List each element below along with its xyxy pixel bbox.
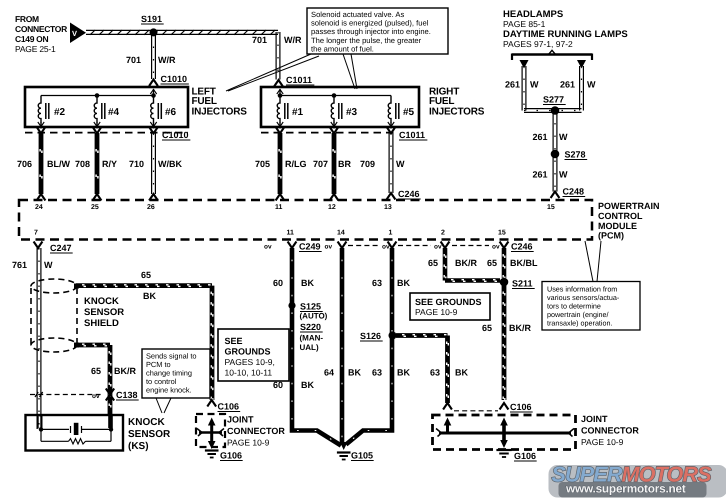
svg-text:C1010: C1010 xyxy=(161,74,188,84)
PCM bottom pin numbers xyxy=(34,230,506,237)
arrow to headlamps left xyxy=(520,60,529,69)
wire 65 BK/R from pin 2 xyxy=(444,248,500,281)
label RIGHT FUEL INJECTORS xyxy=(429,87,485,118)
note: see grounds pages 10-9 10-10 10-11 xyxy=(218,329,289,381)
wire 261 W from S277 to C248 xyxy=(553,111,557,192)
svg-text:BL/W: BL/W xyxy=(47,159,70,169)
labels S125 AUTO S220 MANUAL xyxy=(300,302,328,353)
PCM top forks for injector wires xyxy=(37,194,339,201)
svg-text:BK: BK xyxy=(397,278,410,288)
callout: uses information note xyxy=(542,282,640,331)
wire 65 BK/R from S211 to C106 xyxy=(503,286,505,401)
label 261 W mid xyxy=(533,132,569,142)
label POWERTRAIN CONTROL MODULE (PCM) xyxy=(598,201,660,241)
svg-text:705: 705 xyxy=(255,159,270,169)
svg-text:PAGE 85-1: PAGE 85-1 xyxy=(503,19,546,29)
ground G106 right arrow xyxy=(500,440,508,448)
ground G105 xyxy=(337,451,374,461)
svg-text:64: 64 xyxy=(324,368,334,378)
svg-text:701: 701 xyxy=(126,55,141,65)
svg-text:W: W xyxy=(44,260,53,270)
injector #3 xyxy=(331,96,358,129)
svg-text:C106: C106 xyxy=(510,402,532,412)
svg-text:63: 63 xyxy=(372,278,382,288)
wire 761 into knock sensor xyxy=(38,415,42,429)
svg-text:G106: G106 xyxy=(514,451,536,461)
svg-text:S191: S191 xyxy=(141,14,162,24)
right box internal bus wire xyxy=(280,95,391,97)
svg-text:CONNECTOR: CONNECTOR xyxy=(15,24,67,34)
svg-text:BK/R: BK/R xyxy=(455,258,477,268)
ground G106 right xyxy=(496,450,536,461)
svg-text:2: 2 xyxy=(441,230,445,237)
headlamps bracket xyxy=(512,50,592,60)
svg-text:UAL): UAL) xyxy=(300,343,319,352)
svg-text:PAGE 10-9: PAGE 10-9 xyxy=(581,437,624,447)
svg-text:(PCM): (PCM) xyxy=(598,231,624,241)
note: headlamps / daytime running lamps xyxy=(503,9,628,49)
svg-text:KNOCK: KNOCK xyxy=(128,417,165,428)
connector C1011 bottom label xyxy=(399,130,427,140)
svg-text:261: 261 xyxy=(533,170,548,180)
knock sensor internal piezo element xyxy=(39,423,113,444)
svg-text:13: 13 xyxy=(384,204,392,211)
connector C247 fork at pin 7 xyxy=(34,242,73,254)
wire 761 W from C247 to knock sensor xyxy=(37,248,41,429)
svg-text:W/R: W/R xyxy=(284,35,302,45)
svg-text:65: 65 xyxy=(141,270,151,280)
junction square shield bottom xyxy=(74,343,79,348)
svg-text:SEE GROUNDS: SEE GROUNDS xyxy=(415,297,482,307)
arrow to headlamps right xyxy=(577,60,586,69)
injector #4 xyxy=(94,96,120,129)
svg-text:ov: ov xyxy=(434,244,442,251)
wire 261 W bottom connecting xyxy=(524,109,582,113)
svg-text:W/R: W/R xyxy=(158,55,176,65)
callout 3 pointer to PCM xyxy=(585,241,601,282)
callout pointer to left injector box xyxy=(226,54,319,91)
svg-text:SENSOR: SENSOR xyxy=(84,307,124,318)
svg-text:25: 25 xyxy=(91,204,99,211)
svg-text:C1011: C1011 xyxy=(286,75,312,85)
PCM top pin numbers xyxy=(35,204,555,211)
wire 701 W/R vertical right branch to C1011 xyxy=(276,32,280,80)
svg-text:Solenoid actuated valve. As: Solenoid actuated valve. As xyxy=(311,10,405,19)
svg-text:15: 15 xyxy=(498,230,506,237)
svg-text:engine knock.: engine knock. xyxy=(146,386,192,395)
note: see grounds page 10-9 xyxy=(410,293,490,320)
svg-text:7: 7 xyxy=(34,230,38,237)
svg-text:CONTROL: CONTROL xyxy=(598,211,643,221)
svg-text:(MAN-: (MAN- xyxy=(300,334,324,343)
left fuel injectors box xyxy=(25,87,188,127)
right box bottom connector C1011 dashed line xyxy=(261,132,395,134)
svg-text:FROM: FROM xyxy=(15,14,39,24)
junction dot at injector 4 xyxy=(95,93,100,98)
svg-text:BK: BK xyxy=(143,291,156,301)
ground G106 left xyxy=(205,451,243,461)
hatch on 761 wire at C138 xyxy=(35,392,43,397)
label KNOCK SENSOR SHIELD xyxy=(84,296,124,329)
splice S278 xyxy=(551,150,587,160)
svg-text:SEE: SEE xyxy=(225,336,243,346)
svg-text:710: 710 xyxy=(129,159,144,169)
svg-text:1: 1 xyxy=(389,230,393,237)
right box entry arrow from C1011 xyxy=(277,89,283,96)
svg-text:65: 65 xyxy=(487,258,497,268)
svg-text:14: 14 xyxy=(337,230,345,237)
svg-text:V: V xyxy=(72,29,77,38)
svg-text:BK: BK xyxy=(455,368,468,378)
label JOINT CONNECTOR PAGE 10-9 right xyxy=(581,414,639,447)
svg-text:PAGE 25-1: PAGE 25-1 xyxy=(15,44,56,54)
svg-text:transaxle) operation.: transaxle) operation. xyxy=(547,319,613,328)
ground G105 arrow xyxy=(340,442,348,450)
svg-text:C106: C106 xyxy=(218,402,240,412)
svg-text:R/LG: R/LG xyxy=(285,159,307,169)
svg-text:63: 63 xyxy=(430,368,440,378)
svg-text:10-10, 10-11: 10-10, 10-11 xyxy=(225,368,273,378)
right fuel injectors box xyxy=(261,87,419,127)
wire 701 W/R hatched horizontal from arrow to elbow xyxy=(86,30,278,35)
junction dot at right entry xyxy=(278,93,283,98)
wire 701 W/R vertical left branch from S191 to C1010 xyxy=(152,34,156,79)
connector C1010 top fork xyxy=(149,74,189,86)
svg-text:G105: G105 xyxy=(351,451,373,461)
svg-text:#2: #2 xyxy=(54,107,66,118)
callout: sends signal to PCM note xyxy=(142,349,210,398)
svg-text:#3: #3 xyxy=(346,107,358,118)
svg-text:SHIELD: SHIELD xyxy=(84,318,119,329)
callout pointer to right injector box xyxy=(343,54,357,89)
svg-text:BK/R: BK/R xyxy=(509,323,531,333)
svg-text:W: W xyxy=(530,80,539,90)
svg-text:65: 65 xyxy=(428,258,438,268)
svg-text:PAGES 97-1, 97-2: PAGES 97-1, 97-2 xyxy=(503,39,573,49)
connector C246 at PCM pin 13 xyxy=(387,189,421,200)
svg-text:(AUTO): (AUTO) xyxy=(300,312,328,321)
knock sensor box xyxy=(26,415,124,451)
wire 63 BK from S126 to joint connector xyxy=(396,335,448,403)
label 701 W/R right branch xyxy=(252,35,302,45)
wire 65 BK vertical to C106 xyxy=(211,286,213,400)
label KNOCK SENSOR (KS) xyxy=(128,417,171,452)
label 701 W/R left branch xyxy=(126,55,176,65)
svg-text:C1011: C1011 xyxy=(399,130,425,140)
label 65 BK/BL pin15 xyxy=(487,258,538,268)
svg-text:passes through injector into: passes through injector into engine. xyxy=(311,27,431,36)
wire 65 BK/BL from pin 15 xyxy=(503,248,505,278)
svg-text:ov: ov xyxy=(325,244,333,251)
svg-text:W: W xyxy=(587,80,596,90)
splice S191 xyxy=(141,14,164,36)
svg-text:CONNECTOR: CONNECTOR xyxy=(227,426,285,436)
svg-text:701: 701 xyxy=(252,35,267,45)
wire 64 BK from pin 14 xyxy=(340,248,345,444)
labels for injector wires xyxy=(17,159,405,169)
label 64 BK xyxy=(324,368,361,378)
svg-text:11: 11 xyxy=(275,204,283,211)
svg-text:C249: C249 xyxy=(299,242,321,252)
injector #1 xyxy=(277,96,304,129)
label 65 BK/R lower xyxy=(482,323,531,333)
svg-text:KNOCK: KNOCK xyxy=(84,296,119,307)
injector #6 xyxy=(150,96,176,129)
svg-text:BK/R: BK/R xyxy=(114,366,136,376)
label 761 W xyxy=(12,260,53,270)
svg-text:261: 261 xyxy=(560,80,575,90)
left box exit forks xyxy=(37,127,158,133)
connector C1011 top fork xyxy=(274,75,314,87)
svg-text:C1010: C1010 xyxy=(162,130,189,140)
splice S211 xyxy=(500,278,535,289)
svg-text:BR: BR xyxy=(338,159,351,169)
svg-text:C138: C138 xyxy=(116,390,138,400)
svg-text:FUEL: FUEL xyxy=(192,96,217,107)
svg-text:PAGE 10-9: PAGE 10-9 xyxy=(227,438,270,448)
junction dot at left entry xyxy=(151,93,156,98)
svg-text:63: 63 xyxy=(372,368,382,378)
splice S126 xyxy=(360,331,397,341)
label 60 BK lower xyxy=(273,380,314,390)
knock sensor shield dashed cylinder xyxy=(31,279,77,352)
note: from connector C149 text xyxy=(15,14,67,54)
splice S277 xyxy=(543,95,566,115)
svg-text:solenoid is energized (pulsed): solenoid is energized (pulsed), fuel xyxy=(311,19,429,28)
svg-text:BK/BL: BK/BL xyxy=(510,258,538,268)
wire 706 BL/W xyxy=(40,133,42,194)
svg-text:#1: #1 xyxy=(292,107,304,118)
svg-text:SENSOR: SENSOR xyxy=(128,429,171,440)
svg-text:65: 65 xyxy=(91,366,101,376)
wire 65 BK/R into knock sensor xyxy=(108,415,113,428)
label LEFT FUEL INJECTORS xyxy=(192,87,248,118)
svg-text:60: 60 xyxy=(273,278,283,288)
svg-text:POWERTRAIN: POWERTRAIN xyxy=(598,201,660,211)
svg-text:W: W xyxy=(396,159,405,169)
injector #2 xyxy=(38,96,66,129)
wire 709 W xyxy=(389,133,393,193)
svg-text:708: 708 xyxy=(75,159,90,169)
svg-text:S126: S126 xyxy=(360,331,381,341)
svg-text:706: 706 xyxy=(17,159,32,169)
svg-text:G106: G106 xyxy=(220,451,242,461)
svg-text:60: 60 xyxy=(273,380,283,390)
svg-text:ov: ov xyxy=(264,244,272,251)
connector C246 bottom dashed line xyxy=(348,245,489,247)
svg-text:JOINT: JOINT xyxy=(581,414,608,424)
svg-text:15: 15 xyxy=(547,204,555,211)
label 63 BK lower xyxy=(372,368,410,378)
svg-text:BK: BK xyxy=(301,278,314,288)
svg-text:W: W xyxy=(559,132,568,142)
right joint connector internals xyxy=(436,418,574,445)
wire 705 R/LG xyxy=(279,133,281,194)
svg-text:PAGES 10-9,: PAGES 10-9, xyxy=(225,357,275,367)
wire 708 R/Y xyxy=(96,133,98,194)
svg-text:#6: #6 xyxy=(165,107,177,118)
label 65 BK/R knock xyxy=(91,366,136,376)
svg-text:GROUNDS: GROUNDS xyxy=(225,347,271,357)
label 261 W lower xyxy=(533,170,569,180)
label 65 BK xyxy=(141,270,156,301)
svg-text:#4: #4 xyxy=(108,107,120,118)
svg-text:(KS): (KS) xyxy=(128,441,149,452)
svg-text:www.supermotors.net: www.supermotors.net xyxy=(565,482,686,496)
left joint connector internals xyxy=(197,418,224,444)
connector C248 at PCM pin 15 xyxy=(551,187,586,199)
svg-text:26: 26 xyxy=(147,204,155,211)
svg-text:BK: BK xyxy=(348,368,361,378)
wire 65 BK shield drain horizontal xyxy=(76,285,212,287)
powertrain control module dashed box xyxy=(19,200,592,240)
left box bottom connector C1010 dashed line xyxy=(25,132,188,134)
junction dot at injector 3 xyxy=(332,93,337,98)
wire 710 W/BK xyxy=(152,133,156,194)
left box internal bus wire xyxy=(41,95,154,97)
svg-text:C247: C247 xyxy=(50,243,72,253)
svg-text:INJECTORS: INJECTORS xyxy=(429,107,485,118)
wire 261 W right leg xyxy=(580,66,584,111)
label JOINT CONNECTOR PAGE 10-9 left xyxy=(227,415,285,448)
svg-text:INJECTORS: INJECTORS xyxy=(192,107,248,118)
callout: solenoid actuated valve note xyxy=(307,8,448,54)
junction square shield top xyxy=(74,284,79,289)
svg-text:S125: S125 xyxy=(300,302,321,312)
svg-text:S278: S278 xyxy=(565,150,586,160)
wire 60 BK from pin 11 xyxy=(292,248,341,446)
svg-text:the amount of fuel.: the amount of fuel. xyxy=(311,45,374,54)
svg-text:261: 261 xyxy=(533,132,548,142)
svg-text:12: 12 xyxy=(328,204,336,211)
right joint connector dashed box xyxy=(433,415,576,450)
svg-text:C246: C246 xyxy=(511,242,533,252)
svg-text:11: 11 xyxy=(287,230,295,237)
label 60 BK upper xyxy=(273,278,314,288)
connector C249 forks and label xyxy=(264,242,346,252)
wire 65 BK/R shield to C138 horizontal xyxy=(76,344,110,346)
svg-text:709: 709 xyxy=(360,159,375,169)
right box exit forks xyxy=(276,127,396,133)
svg-text:24: 24 xyxy=(35,204,43,211)
connector C1010 bottom label xyxy=(162,130,190,140)
svg-text:CONNECTOR: CONNECTOR xyxy=(581,426,639,436)
svg-text:C248: C248 xyxy=(563,187,585,197)
connector C246 bottom forks and label xyxy=(382,242,534,252)
label 63 BK upper xyxy=(372,278,410,288)
wire 261 W left leg xyxy=(522,66,526,111)
svg-text:R/Y: R/Y xyxy=(102,159,117,169)
svg-text:BK: BK xyxy=(397,368,410,378)
labels 261 W upper xyxy=(505,80,596,90)
svg-text:BK: BK xyxy=(301,380,314,390)
connector C138 fork and label xyxy=(92,389,139,401)
svg-text:S277: S277 xyxy=(543,95,564,105)
svg-text:S211: S211 xyxy=(512,279,533,289)
left box entry arrow from C1010 xyxy=(150,89,156,96)
svg-text:MODULE: MODULE xyxy=(598,221,637,231)
svg-text:PAGE 10-9: PAGE 10-9 xyxy=(415,307,458,317)
svg-text:S220: S220 xyxy=(300,322,321,332)
svg-text:707: 707 xyxy=(313,159,328,169)
wire 63 BK from pin 1 xyxy=(346,248,392,445)
connector C106 right forks and label xyxy=(443,402,533,412)
callout 2 pointer to knock sensor xyxy=(156,398,171,413)
svg-text:C246: C246 xyxy=(398,189,420,199)
svg-text:ov: ov xyxy=(492,244,500,251)
wire 707 BR xyxy=(333,133,335,194)
svg-text:The longer the pulse, the grea: The longer the pulse, the greater xyxy=(311,36,422,45)
svg-text:ov: ov xyxy=(92,393,100,400)
injector #5 xyxy=(388,96,415,129)
svg-text:W/BK: W/BK xyxy=(158,159,182,169)
connector C106 right dashed line xyxy=(454,410,498,412)
wire 65 BK/R vertical to knock sensor xyxy=(109,345,111,414)
off-page arrow V xyxy=(70,23,86,44)
svg-text:761: 761 xyxy=(12,260,27,270)
svg-text:FUEL: FUEL xyxy=(429,96,454,107)
connector C106 left fork xyxy=(207,400,240,412)
label 63 BK branch xyxy=(430,368,468,378)
supermotors watermark xyxy=(549,463,726,498)
left joint connector dashed box xyxy=(196,414,225,447)
svg-text:JOINT: JOINT xyxy=(227,415,254,425)
svg-text:W: W xyxy=(559,170,568,180)
splice S125/S220 xyxy=(288,302,295,309)
connector C138 dashed line xyxy=(30,394,103,396)
svg-text:C149 ON: C149 ON xyxy=(15,34,48,44)
label 65 BK/R pin2 xyxy=(428,258,477,268)
ground G106 left joint arrow xyxy=(208,441,216,449)
svg-text:65: 65 xyxy=(482,323,492,333)
svg-text:#5: #5 xyxy=(403,107,415,118)
svg-text:261: 261 xyxy=(505,80,520,90)
